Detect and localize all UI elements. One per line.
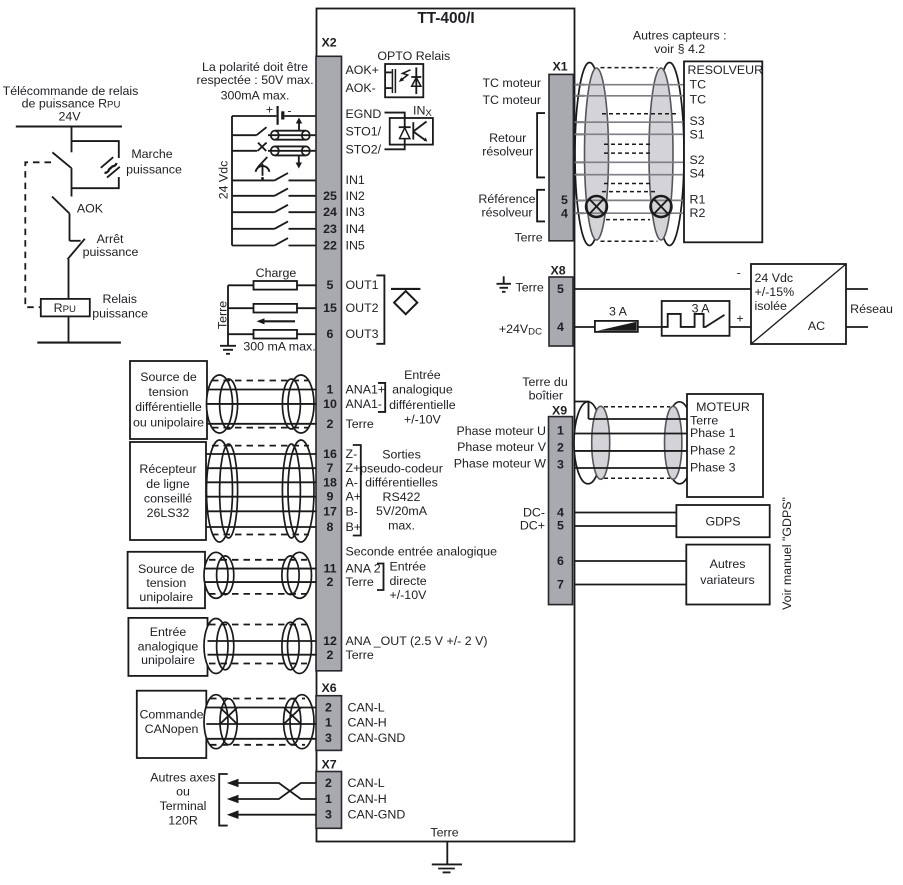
wire vertical drop from bus — [71, 127, 73, 153]
svg-text:CAN-GND: CAN-GND — [348, 808, 406, 822]
svg-text:Relais: Relais — [102, 292, 136, 306]
wire OUT1 — [228, 284, 317, 286]
svg-text:STO2/: STO2/ — [346, 143, 382, 157]
pin numbers 16 7 18 9 17 8 — [323, 447, 337, 534]
svg-text:Phase 2: Phase 2 — [690, 443, 736, 457]
wire CAN-H X6 — [206, 723, 316, 725]
svg-text:TT-400/I: TT-400/I — [417, 10, 474, 27]
switch Marche (blade) — [52, 152, 71, 168]
svg-text:OUT1: OUT1 — [346, 278, 379, 292]
svg-text:+/-10V: +/-10V — [390, 588, 428, 602]
svg-text:7: 7 — [557, 578, 564, 592]
switch IN5 — [232, 238, 317, 245]
svg-text:IN5: IN5 — [346, 239, 365, 253]
cable CAN shield dashed — [210, 699, 305, 745]
svg-text:IN3: IN3 — [346, 205, 365, 219]
wire ANA1- — [207, 403, 317, 405]
svg-text:résolveur: résolveur — [482, 206, 533, 220]
svg-text:Récepteur: Récepteur — [139, 462, 196, 476]
unit outline box TT-400/I — [317, 9, 575, 842]
svg-text:max.: max. — [388, 519, 415, 533]
box Récepteur de ligne conseillé 26LS32 — [130, 442, 206, 540]
svg-text:6: 6 — [327, 327, 334, 341]
wire EGND to opto input — [385, 113, 405, 118]
wire pin4 to fuse — [575, 326, 595, 328]
svg-text:A+: A+ — [346, 490, 362, 504]
wire S4 — [575, 174, 685, 176]
svg-text:CAN-GND: CAN-GND — [348, 731, 406, 745]
wire S1 — [575, 133, 685, 135]
svg-text:Entrée: Entrée — [404, 368, 441, 382]
svg-text:Commande: Commande — [139, 707, 203, 721]
svg-text:conseillé: conseillé — [144, 491, 192, 505]
svg-text:+/-15%: +/-15% — [755, 285, 795, 299]
svg-text:RS422: RS422 — [383, 490, 421, 504]
label Autres axes ou Terminal 120R — [150, 771, 215, 828]
svg-text:pseudo-codeur: pseudo-codeur — [360, 462, 443, 476]
svg-text:GDPS: GDPS — [705, 515, 740, 529]
wire réseau top — [846, 288, 868, 290]
svg-text:Terre du: Terre du — [522, 375, 568, 389]
svg-text:+: + — [266, 102, 273, 116]
svg-text:TC: TC — [690, 92, 707, 106]
wire CAN-L X7 with crossover — [233, 783, 317, 799]
svg-text:Entrée: Entrée — [390, 560, 427, 574]
pin labels CAN X7 — [348, 776, 406, 822]
pin numbers 12 2 — [323, 634, 337, 662]
pin numbers X9 6 7 — [557, 554, 564, 592]
svg-text:variateurs: variateurs — [700, 573, 754, 587]
svg-text:OPTO Relais: OPTO Relais — [377, 49, 450, 63]
cable resolver shield ellipses — [585, 68, 674, 240]
svg-text:2: 2 — [327, 417, 334, 431]
cable CAN sheath ends — [204, 695, 314, 749]
wire Terre rail OUT — [227, 285, 229, 346]
INx phototransistor — [413, 122, 427, 142]
cable ANA1 sheath ends — [207, 375, 315, 433]
label Entrée analogique différentielle — [389, 368, 456, 426]
opto-relay input stubs — [385, 72, 392, 88]
svg-text:Terre: Terre — [430, 826, 458, 840]
svg-text:24V: 24V — [58, 110, 81, 124]
svg-text:RESOLVEUR: RESOLVEUR — [688, 63, 764, 77]
wire B+ — [206, 526, 317, 528]
svg-text:CAN-H: CAN-H — [348, 792, 387, 806]
svg-text:15: 15 — [323, 301, 337, 315]
box Autres variateurs — [686, 545, 769, 605]
svg-text:voir § 4.2: voir § 4.2 — [654, 42, 705, 56]
svg-text:Terre: Terre — [516, 281, 544, 295]
pin ticks X1 — [575, 85, 585, 214]
bracket ANA2 pair — [377, 564, 384, 591]
svg-text:Z-: Z- — [346, 447, 358, 461]
svg-text:RPU: RPU — [54, 301, 76, 315]
bracket Référence résolveur — [537, 190, 545, 222]
svg-text:CAN-L: CAN-L — [348, 701, 385, 715]
wire Z- — [206, 453, 317, 455]
pin labels OUT1-OUT3 — [346, 278, 379, 341]
wire R2 — [575, 212, 685, 214]
svg-text:AOK: AOK — [77, 202, 104, 216]
svg-text:STO1/: STO1/ — [346, 125, 382, 139]
svg-text:1: 1 — [325, 792, 332, 806]
svg-text:+/-10V: +/-10V — [404, 412, 442, 426]
label Terre du boîtier — [522, 375, 568, 403]
switch STO2 with cross — [232, 143, 317, 151]
wire 24Vdc left rail — [231, 116, 233, 246]
svg-text:S4: S4 — [690, 167, 705, 181]
cable ANA2 end rings — [217, 556, 300, 595]
pin labels Z A B — [346, 447, 362, 534]
label Arrêt puissance — [83, 232, 139, 259]
label DC- DC+ — [520, 505, 545, 532]
svg-text:5V/20mA: 5V/20mA — [376, 504, 428, 518]
resistor load OUT1 — [254, 281, 298, 290]
wire Terre ANA1 — [207, 423, 317, 425]
svg-text:puissance: puissance — [92, 306, 148, 320]
svg-text:Phase moteur W: Phase moteur W — [454, 457, 547, 471]
opto-relay isolation bars — [392, 69, 395, 93]
svg-text:TC moteur: TC moteur — [482, 76, 541, 90]
cable codeur sheath ends — [207, 440, 315, 542]
cable codeur shield dashed — [212, 446, 309, 535]
svg-text:DC-: DC- — [523, 505, 545, 519]
wire TC 2 — [575, 95, 685, 97]
svg-text:24 Vdc: 24 Vdc — [216, 161, 230, 200]
svg-text:Sorties: Sorties — [382, 448, 421, 462]
wire ANA2 — [205, 568, 317, 570]
svg-text:Terre: Terre — [346, 648, 374, 662]
wire dashed mechanical link — [25, 162, 51, 307]
cable ANAOUT sheath ends — [204, 619, 312, 674]
svg-text:7: 7 — [327, 461, 334, 475]
svg-text:ANA1-: ANA1- — [346, 397, 383, 411]
svg-text:11: 11 — [323, 562, 336, 576]
circuit breaker 3A box — [662, 301, 730, 336]
svg-text:1: 1 — [557, 424, 564, 438]
svg-text:B+: B+ — [346, 520, 362, 534]
svg-text:X8: X8 — [551, 264, 566, 278]
opto-relay output diode — [411, 67, 421, 94]
wire bottom bus — [37, 342, 121, 344]
connector X6 (bar) — [316, 696, 342, 751]
wire pin7 — [575, 584, 687, 586]
wire fuse to breaker — [638, 326, 662, 328]
wire OUT3 — [228, 333, 317, 335]
svg-text:X6: X6 — [322, 681, 337, 695]
wire branch bottom from coil — [72, 177, 119, 188]
wire phase W — [575, 467, 688, 469]
wire pin5 to supply — [575, 288, 752, 290]
svg-text:MOTEUR: MOTEUR — [696, 400, 750, 414]
svg-text:CAN-H: CAN-H — [348, 716, 387, 730]
wire S3 — [575, 121, 685, 123]
svg-text:8: 8 — [327, 520, 334, 534]
svg-text:4: 4 — [557, 505, 564, 519]
switch AOK (blade) — [52, 197, 70, 214]
motor cable dashed shield — [604, 407, 670, 479]
svg-text:Charge: Charge — [256, 266, 297, 280]
opto-relay light arrow — [399, 70, 411, 82]
svg-text:différentielles: différentielles — [365, 476, 438, 490]
coil Marche puissance (brake symbol) — [101, 157, 120, 177]
arrow down on STO2 sleeve — [296, 155, 302, 168]
svg-text:R2: R2 — [690, 206, 706, 220]
svg-text:S3: S3 — [690, 114, 705, 128]
svg-text:Retour: Retour — [489, 131, 526, 145]
svg-text:24: 24 — [323, 205, 337, 219]
svg-text:2: 2 — [327, 575, 334, 589]
wire Z+ — [206, 467, 317, 469]
svg-text:25: 25 — [323, 189, 337, 203]
battery 24Vdc — [266, 102, 292, 125]
opto-coupler INx box — [390, 118, 433, 145]
svg-text:Référence: Référence — [478, 192, 535, 206]
cable ANA1 shield dashed — [212, 381, 309, 428]
svg-text:directe: directe — [390, 574, 427, 588]
svg-text:AOK-: AOK- — [346, 81, 376, 95]
wire OUT2 — [228, 307, 317, 309]
inductive load diamond symbol — [391, 289, 420, 314]
arrowhead CAN-H — [227, 795, 239, 804]
svg-text:Terre: Terre — [216, 301, 230, 329]
svg-text:S1: S1 — [690, 127, 705, 141]
svg-text:tension: tension — [146, 576, 186, 590]
wire phase U — [575, 433, 688, 435]
bracket Autres axes — [219, 774, 228, 826]
cable ANAOUT shield dashed — [209, 625, 307, 664]
svg-text:analogique: analogique — [392, 383, 453, 397]
svg-text:X7: X7 — [322, 758, 337, 772]
svg-text:OUT2: OUT2 — [346, 301, 379, 315]
svg-text:ou: ou — [176, 785, 190, 799]
svg-text:CAN-L: CAN-L — [348, 776, 385, 790]
svg-text:Source de: Source de — [140, 370, 197, 384]
label Phase moteur U V W — [454, 424, 547, 471]
svg-text:OUT3: OUT3 — [346, 327, 379, 341]
wire vertical to RPU — [68, 259, 70, 299]
connector X1 (bar) — [549, 74, 573, 240]
switch STO1 — [232, 127, 317, 135]
svg-text:2: 2 — [325, 776, 332, 790]
svg-text:Terre: Terre — [346, 575, 374, 589]
cable codeur end rings — [220, 444, 301, 538]
pin numbers X9 4 5 — [557, 505, 564, 532]
svg-text:ANA _OUT (2.5 V +/- 2 V): ANA _OUT (2.5 V +/- 2 V) — [346, 634, 488, 648]
ground symbol OUT — [220, 346, 236, 354]
label Autres capteurs : voir § 4.2 — [633, 29, 727, 57]
pin labels ANA2 — [346, 562, 381, 590]
label La polarité doit être respectée — [196, 60, 313, 103]
svg-text:26LS32: 26LS32 — [147, 506, 190, 520]
wire DC- — [575, 512, 677, 514]
resistor load OUT3 — [254, 330, 298, 339]
pin labels CAN X6 — [348, 701, 406, 745]
svg-text:IN4: IN4 — [346, 222, 365, 236]
svg-text:X1: X1 — [553, 60, 568, 74]
svg-text:S2: S2 — [690, 153, 705, 167]
pin labels X2 AOK/STO — [346, 63, 382, 157]
svg-text:puissance: puissance — [83, 245, 139, 259]
svg-text:Entrée: Entrée — [150, 625, 187, 639]
svg-text:Phase moteur U: Phase moteur U — [456, 424, 546, 438]
svg-text:Réseau: Réseau — [850, 302, 893, 316]
box RESOLVEUR — [684, 61, 763, 242]
svg-text:Terre: Terre — [346, 417, 374, 431]
wire CAN-H X7 with crossover — [233, 783, 317, 799]
svg-text:ANA1+: ANA1+ — [346, 383, 386, 397]
connector X7 (bar) — [316, 772, 342, 829]
twist cross left — [220, 708, 237, 725]
svg-text:Seconde entrée analogique: Seconde entrée analogique — [346, 545, 498, 559]
label Marche puissance — [126, 147, 182, 176]
wire Terre motor — [589, 418, 688, 420]
svg-text:respectée : 50V max.: respectée : 50V max. — [196, 73, 313, 87]
cable CAN end rings — [220, 699, 301, 745]
svg-text:boîtier: boîtier — [529, 389, 563, 403]
svg-text:de ligne: de ligne — [146, 477, 190, 491]
svg-text:TC: TC — [690, 77, 707, 91]
wire ANA OUT — [208, 640, 317, 642]
svg-text:17: 17 — [323, 504, 337, 518]
ground symbol Terre X8 — [497, 276, 512, 292]
wire CAN-GND X7 — [233, 814, 317, 816]
pin numbers 25 24 23 22 — [323, 189, 337, 253]
svg-text:Arrêt: Arrêt — [97, 232, 124, 246]
label Sorties pseudo-codeur différentielles RS422 — [360, 448, 443, 533]
wire ground stem — [446, 841, 448, 864]
svg-text:3: 3 — [325, 808, 332, 822]
resistor load OUT2 — [254, 304, 298, 313]
arrow up on STO1 sleeve — [296, 118, 302, 131]
pin numbers 1 10 2 — [323, 383, 337, 432]
svg-text:10: 10 — [323, 397, 337, 411]
label Relais puissance — [92, 292, 148, 320]
wire ANA1+ — [207, 389, 317, 391]
svg-text:3 A: 3 A — [609, 304, 628, 318]
svg-text:120R: 120R — [168, 814, 198, 828]
label Entrée directe +/-10V — [390, 560, 428, 603]
cable motor shield ellipses — [592, 406, 682, 479]
svg-text:5: 5 — [561, 193, 568, 207]
wire Terre ANA2 — [205, 581, 317, 583]
svg-text:ANA 2: ANA 2 — [346, 562, 381, 576]
svg-text:300 mA max.: 300 mA max. — [243, 340, 315, 354]
wire S2 — [575, 161, 685, 163]
cable motor sheath ends — [574, 402, 694, 484]
fuse 3A — [595, 304, 638, 332]
pin labels ANA1 — [346, 383, 386, 432]
cable ANA2 sheath ends — [204, 552, 312, 598]
svg-text:1: 1 — [325, 716, 332, 730]
connector X2 (bar) — [316, 56, 342, 671]
pin numbers X1 5 4 — [561, 193, 568, 220]
svg-text:Voir manuel "GDPS": Voir manuel "GDPS" — [780, 497, 794, 610]
svg-text:12: 12 — [323, 634, 337, 648]
svg-text:AC: AC — [808, 319, 825, 333]
svg-text:AOK+: AOK+ — [346, 63, 379, 77]
svg-text:3 A: 3 A — [692, 302, 711, 316]
svg-text:Phase 3: Phase 3 — [690, 461, 736, 475]
resolver pin labels — [690, 77, 707, 220]
wire 24V top bus — [16, 125, 122, 127]
connector X8 (bar) — [549, 277, 573, 346]
wire vertical below RPU — [68, 316, 70, 342]
twist cross right — [284, 708, 301, 725]
svg-text:TC moteur: TC moteur — [482, 93, 541, 107]
opto-relay U1 box — [385, 64, 423, 97]
wire B- — [206, 510, 317, 512]
ferrite sleeve STO2 — [271, 146, 310, 155]
svg-text:Terre: Terre — [514, 230, 542, 244]
svg-text:2: 2 — [327, 648, 334, 662]
pin numbers X7 2 1 3 — [325, 776, 332, 822]
bracket OUT group — [376, 275, 384, 343]
ferrite sleeve STO1 — [271, 131, 310, 140]
svg-text:22: 22 — [323, 239, 337, 253]
svg-text:Phase moteur V: Phase moteur V — [457, 440, 547, 454]
arrowhead CAN-L — [227, 779, 239, 788]
wire terre du boîtier — [575, 402, 589, 420]
svg-text:16: 16 — [323, 447, 337, 461]
wire pin6 — [575, 560, 687, 562]
svg-text:9: 9 — [327, 490, 334, 504]
switch IN3 — [232, 205, 317, 212]
svg-text:DC+: DC+ — [520, 519, 545, 533]
wire phase V — [575, 450, 688, 452]
svg-text:puissance: puissance — [126, 163, 182, 177]
svg-text:EGND: EGND — [346, 107, 382, 121]
box Commande CANopen — [137, 691, 207, 758]
bracket codeur group — [353, 445, 361, 536]
svg-text:+: + — [736, 311, 743, 325]
svg-text:23: 23 — [323, 222, 337, 236]
relay coil RPU — [41, 299, 90, 317]
label Référence résolveur — [478, 192, 535, 220]
svg-text:300mA max.: 300mA max. — [221, 89, 290, 103]
svg-text:4: 4 — [561, 206, 568, 220]
svg-text:1: 1 — [327, 383, 334, 397]
ground symbol bottom — [432, 864, 462, 872]
svg-text:X9: X9 — [552, 403, 567, 417]
box Source de tension différentielle ou unipolaire — [130, 361, 207, 439]
connector X9 (bar) — [549, 417, 573, 605]
label Retour résolveur — [482, 131, 533, 159]
svg-text:4: 4 — [557, 320, 564, 334]
twisted pair ring right — [651, 196, 672, 217]
cable ANA2 shield dashed — [209, 560, 307, 594]
wire vertical mid — [71, 168, 73, 196]
pin labels IN1-IN5 — [346, 173, 365, 253]
svg-text:Source de: Source de — [138, 562, 195, 576]
wire CAN-GND X6 — [206, 738, 316, 740]
current arrow 300mA — [257, 318, 296, 324]
svg-text:18: 18 — [323, 475, 337, 489]
svg-text:Terminal: Terminal — [160, 799, 207, 813]
svg-text:5: 5 — [327, 278, 334, 292]
wire branch top to Marche coil — [72, 141, 119, 158]
wire STO2/ to opto input — [385, 145, 405, 150]
svg-text:5: 5 — [557, 519, 564, 533]
pin numbers 11 2 — [323, 562, 336, 590]
box GDPS — [676, 505, 769, 537]
svg-text:de puissance RPU: de puissance RPU — [22, 97, 121, 111]
svg-text:A-: A- — [346, 475, 358, 489]
svg-text:analogique: analogique — [138, 640, 199, 654]
wire DC+ — [575, 525, 677, 527]
cable resolver sheath ends — [575, 63, 684, 246]
wire vertical to Arrêt — [69, 214, 71, 241]
